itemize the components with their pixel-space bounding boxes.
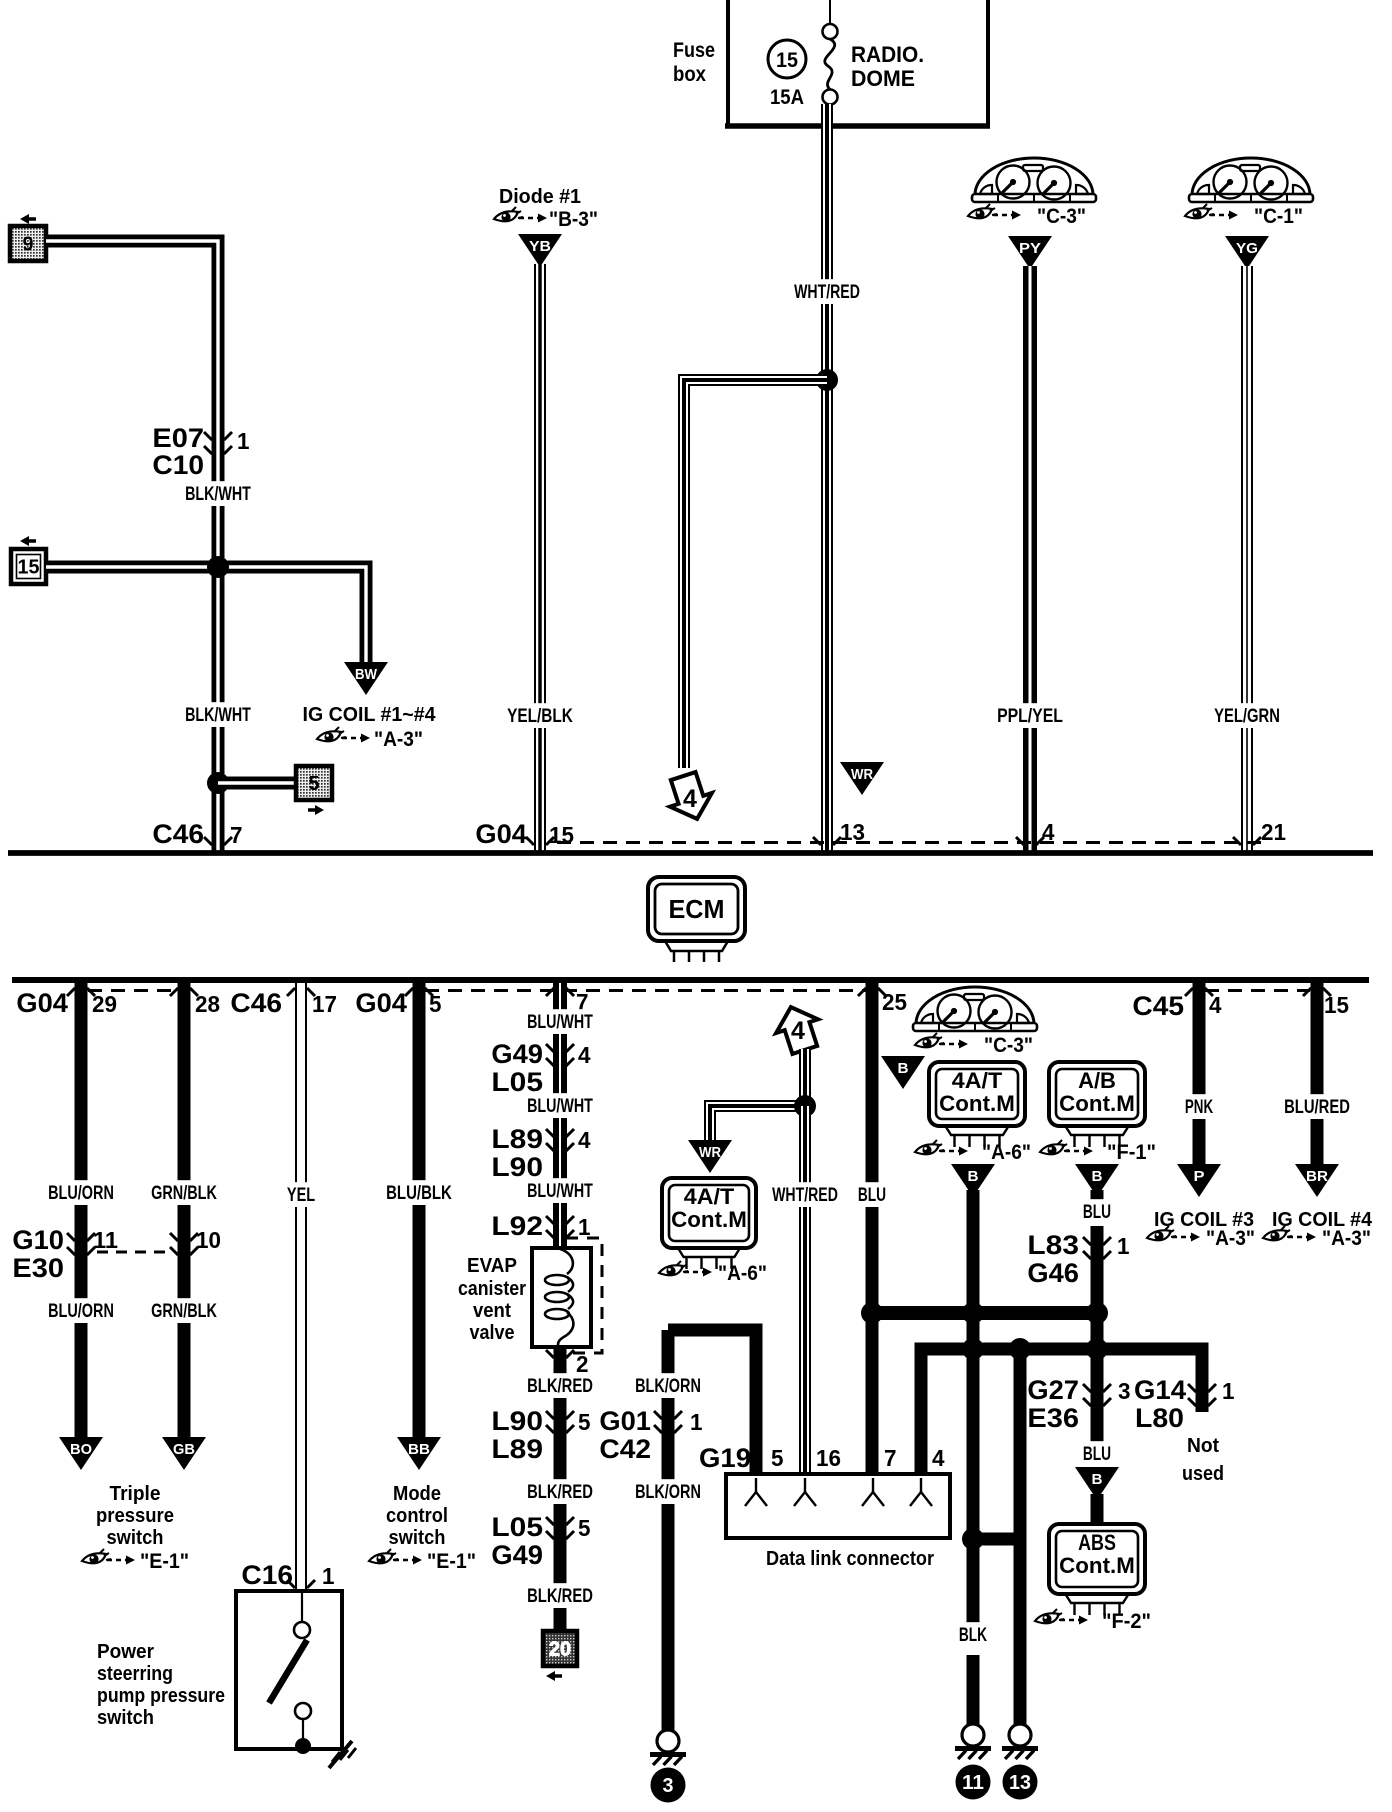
svg-text:5: 5 — [578, 1515, 591, 1541]
svg-text:WHT/RED: WHT/RED — [772, 1185, 838, 1206]
svg-text:13: 13 — [1009, 1772, 1031, 1794]
svg-text:"F-2": "F-2" — [1102, 1610, 1151, 1633]
svg-text:Data link connector: Data link connector — [766, 1548, 934, 1570]
svg-text:L90: L90 — [491, 1152, 543, 1182]
svg-text:G04: G04 — [355, 988, 407, 1018]
svg-text:"A-3": "A-3" — [1206, 1227, 1255, 1250]
svg-text:WR: WR — [699, 1144, 721, 1161]
svg-text:EVAP: EVAP — [467, 1255, 517, 1277]
svg-text:B: B — [1092, 1471, 1103, 1488]
svg-text:Not: Not — [1187, 1435, 1219, 1457]
svg-text:Fuse: Fuse — [673, 39, 715, 62]
svg-text:BLK/ORN: BLK/ORN — [635, 1482, 701, 1503]
svg-text:BLK: BLK — [959, 1625, 987, 1646]
svg-text:valve: valve — [470, 1322, 515, 1344]
svg-text:B: B — [1092, 1168, 1103, 1185]
svg-text:BW: BW — [355, 666, 378, 683]
svg-text:5: 5 — [771, 1445, 784, 1471]
svg-text:A/B: A/B — [1078, 1068, 1116, 1093]
svg-text:BB: BB — [408, 1441, 430, 1458]
svg-text:E07: E07 — [152, 423, 204, 453]
svg-text:BLK/RED: BLK/RED — [527, 1482, 593, 1503]
svg-text:DOME: DOME — [851, 66, 915, 91]
svg-text:2: 2 — [576, 1351, 589, 1377]
svg-text:20: 20 — [549, 1639, 571, 1661]
svg-text:G49: G49 — [491, 1540, 543, 1570]
svg-text:switch: switch — [97, 1707, 154, 1729]
svg-text:GRN/BLK: GRN/BLK — [151, 1301, 217, 1322]
svg-text:L83: L83 — [1027, 1230, 1079, 1260]
svg-text:L92: L92 — [491, 1211, 543, 1241]
svg-text:BLK/WHT: BLK/WHT — [185, 484, 251, 505]
svg-text:"B-3": "B-3" — [549, 208, 598, 231]
svg-text:C46: C46 — [152, 819, 204, 849]
svg-text:Cont.M: Cont.M — [671, 1207, 747, 1232]
svg-text:1: 1 — [1222, 1378, 1235, 1404]
svg-text:BLK/ORN: BLK/ORN — [635, 1376, 701, 1397]
svg-text:BLU: BLU — [1083, 1444, 1111, 1465]
svg-text:C16: C16 — [241, 1560, 293, 1590]
svg-text:"A-6": "A-6" — [982, 1141, 1031, 1164]
svg-text:3: 3 — [1118, 1378, 1131, 1404]
svg-text:15: 15 — [776, 49, 798, 72]
svg-text:4A/T: 4A/T — [684, 1184, 735, 1209]
svg-text:C45: C45 — [1132, 991, 1184, 1021]
svg-text:G27: G27 — [1027, 1375, 1079, 1405]
svg-text:Triple: Triple — [110, 1483, 161, 1505]
svg-text:C46: C46 — [230, 988, 282, 1018]
svg-text:BLU/WHT: BLU/WHT — [527, 1012, 593, 1033]
svg-text:YG: YG — [1236, 240, 1258, 257]
svg-text:"A-3": "A-3" — [374, 728, 423, 751]
svg-text:B: B — [968, 1168, 979, 1185]
svg-text:G49: G49 — [491, 1039, 543, 1069]
svg-text:canister: canister — [458, 1278, 526, 1300]
svg-text:15: 15 — [18, 557, 40, 579]
svg-text:G04: G04 — [16, 988, 68, 1018]
svg-text:L89: L89 — [491, 1124, 543, 1154]
svg-text:21: 21 — [1261, 819, 1286, 845]
svg-text:control: control — [386, 1505, 448, 1527]
svg-text:Cont.M: Cont.M — [1059, 1553, 1135, 1578]
svg-text:P: P — [1194, 1168, 1205, 1185]
svg-text:4: 4 — [578, 1042, 591, 1068]
svg-text:PY: PY — [1019, 240, 1041, 257]
svg-text:11: 11 — [962, 1772, 984, 1794]
svg-text:BLU: BLU — [1083, 1202, 1111, 1223]
svg-text:steerring: steerring — [97, 1663, 173, 1685]
svg-text:G14: G14 — [1134, 1375, 1186, 1405]
svg-text:Cont.M: Cont.M — [939, 1091, 1015, 1116]
svg-text:4A/T: 4A/T — [952, 1068, 1003, 1093]
svg-text:G46: G46 — [1027, 1258, 1079, 1288]
svg-text:5: 5 — [578, 1409, 591, 1435]
svg-text:BLK/WHT: BLK/WHT — [185, 705, 251, 726]
svg-text:PPL/YEL: PPL/YEL — [997, 706, 1063, 727]
svg-text:G04: G04 — [475, 819, 527, 849]
svg-text:pump pressure: pump pressure — [97, 1685, 225, 1707]
svg-text:"A-3": "A-3" — [1322, 1227, 1371, 1250]
svg-text:Mode: Mode — [393, 1483, 441, 1505]
svg-text:WHT/RED: WHT/RED — [794, 282, 860, 303]
svg-text:"A-6": "A-6" — [718, 1262, 767, 1285]
svg-text:4: 4 — [791, 1017, 805, 1045]
svg-text:ECM: ECM — [669, 894, 725, 924]
svg-text:11: 11 — [93, 1227, 118, 1253]
svg-text:box: box — [673, 63, 706, 86]
svg-text:BLK/RED: BLK/RED — [527, 1376, 593, 1397]
svg-text:BLU/ORN: BLU/ORN — [48, 1183, 114, 1204]
svg-text:10: 10 — [196, 1227, 221, 1253]
svg-text:IG COIL #1~#4: IG COIL #1~#4 — [303, 704, 437, 726]
svg-text:4: 4 — [683, 785, 697, 813]
svg-text:BLK/RED: BLK/RED — [527, 1586, 593, 1607]
svg-text:5: 5 — [309, 773, 320, 795]
svg-text:BLU/RED: BLU/RED — [1284, 1097, 1350, 1118]
svg-text:L90: L90 — [491, 1406, 543, 1436]
svg-text:GB: GB — [173, 1441, 195, 1458]
svg-text:YEL/BLK: YEL/BLK — [507, 706, 573, 727]
svg-text:1: 1 — [322, 1563, 335, 1589]
svg-text:L05: L05 — [491, 1512, 543, 1542]
svg-text:1: 1 — [1117, 1233, 1130, 1259]
svg-text:switch: switch — [389, 1527, 446, 1549]
svg-text:7: 7 — [884, 1445, 897, 1471]
svg-text:E36: E36 — [1027, 1403, 1079, 1433]
svg-text:switch: switch — [107, 1527, 164, 1549]
svg-text:C10: C10 — [152, 450, 204, 480]
svg-text:Power: Power — [97, 1641, 154, 1663]
svg-text:ABS: ABS — [1078, 1530, 1116, 1555]
svg-text:15: 15 — [1324, 992, 1349, 1018]
svg-text:"C-1": "C-1" — [1254, 205, 1303, 228]
svg-text:YB: YB — [529, 238, 551, 255]
svg-text:4: 4 — [932, 1445, 945, 1471]
svg-text:3: 3 — [663, 1775, 674, 1797]
svg-text:9: 9 — [23, 234, 34, 256]
svg-text:BO: BO — [70, 1441, 92, 1458]
svg-text:WR: WR — [851, 766, 873, 783]
svg-text:GRN/BLK: GRN/BLK — [151, 1183, 217, 1204]
svg-text:RADIO.: RADIO. — [851, 42, 924, 67]
svg-text:G19: G19 — [699, 1443, 751, 1473]
svg-text:C42: C42 — [599, 1434, 651, 1464]
svg-text:used: used — [1182, 1463, 1224, 1485]
svg-text:"E-1": "E-1" — [427, 1550, 476, 1573]
svg-text:B: B — [898, 1060, 909, 1077]
svg-text:BLU: BLU — [858, 1185, 886, 1206]
svg-text:16: 16 — [816, 1445, 841, 1471]
svg-text:"E-1": "E-1" — [140, 1550, 189, 1573]
svg-text:1: 1 — [690, 1409, 703, 1435]
svg-text:PNK: PNK — [1185, 1097, 1213, 1118]
svg-text:BLU/WHT: BLU/WHT — [527, 1096, 593, 1117]
svg-text:G01: G01 — [599, 1406, 651, 1436]
svg-text:E30: E30 — [12, 1253, 64, 1283]
svg-text:25: 25 — [882, 989, 907, 1015]
svg-text:"C-3": "C-3" — [1037, 205, 1086, 228]
svg-text:L05: L05 — [491, 1067, 543, 1097]
svg-text:Cont.M: Cont.M — [1059, 1091, 1135, 1116]
svg-text:YEL: YEL — [287, 1185, 315, 1206]
svg-text:L80: L80 — [1135, 1403, 1184, 1433]
svg-text:pressure: pressure — [96, 1505, 174, 1527]
svg-text:BLU/ORN: BLU/ORN — [48, 1301, 114, 1322]
svg-text:7: 7 — [230, 822, 243, 848]
svg-text:BR: BR — [1306, 1168, 1328, 1185]
svg-text:G10: G10 — [12, 1225, 64, 1255]
svg-text:15: 15 — [549, 822, 574, 848]
svg-text:YEL/GRN: YEL/GRN — [1214, 706, 1280, 727]
svg-text:BLU/BLK: BLU/BLK — [386, 1183, 452, 1204]
svg-text:1: 1 — [237, 428, 250, 454]
svg-text:4: 4 — [578, 1127, 591, 1153]
svg-text:Diode #1: Diode #1 — [499, 186, 581, 208]
svg-text:15A: 15A — [770, 86, 804, 109]
svg-text:1: 1 — [578, 1214, 591, 1240]
svg-text:"C-3": "C-3" — [984, 1034, 1033, 1057]
svg-text:BLU/WHT: BLU/WHT — [527, 1181, 593, 1202]
svg-text:"F-1": "F-1" — [1107, 1141, 1156, 1164]
svg-text:vent: vent — [473, 1300, 511, 1322]
svg-text:L89: L89 — [491, 1434, 543, 1464]
